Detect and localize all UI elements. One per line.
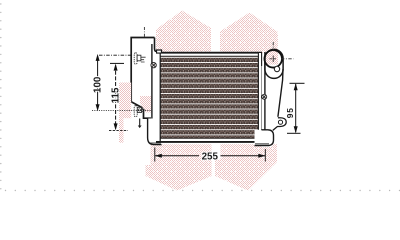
watermark peek B (left sliver below) bbox=[119, 118, 124, 143]
watermark tile H1 (top-left house) bbox=[156, 11, 211, 54]
dim 255 bbox=[155, 148, 265, 162]
end plate left line bbox=[151, 44, 153, 122]
core fins bbox=[160, 57, 259, 139]
end plate strip left (white) bbox=[152, 52, 160, 143]
tank right edge taper bbox=[278, 69, 283, 117]
port center cross bbox=[270, 42, 294, 62]
watermark peek C (notch right of bracket diagonal) bbox=[140, 96, 152, 113]
watermark tile P3 (bottom-left, apex down) bbox=[146, 144, 212, 190]
port big circle bbox=[264, 50, 282, 68]
bracket right edge top with step bbox=[155, 38, 159, 53]
core right end plate bbox=[258, 53, 265, 142]
right tank lower body (white fill) bbox=[262, 66, 287, 147]
dotted page border bottom row bbox=[5, 190, 400, 191]
svg-text:100: 100 bbox=[93, 76, 104, 93]
svg-text:255: 255 bbox=[202, 152, 219, 163]
dim 95 bbox=[287, 83, 305, 133]
screw top-left bbox=[151, 62, 156, 67]
left bracket outline bbox=[131, 38, 154, 119]
svg-text:95: 95 bbox=[285, 107, 295, 118]
core left boundary bbox=[159, 53, 161, 142]
left foot bbox=[148, 119, 162, 145]
core top-left bump bbox=[157, 50, 162, 53]
watermark tiles (pink halftone) bbox=[146, 11, 279, 191]
core bottom gap bbox=[160, 138, 259, 142]
screw bottom-left bbox=[152, 125, 157, 130]
clip symbol lower bbox=[134, 106, 144, 117]
dim 115 bbox=[109, 63, 128, 130]
watermark tile H2 (top-right house) bbox=[220, 13, 278, 54]
svg-text:115: 115 bbox=[111, 87, 122, 103]
centerline stub above bracket bbox=[143, 27, 145, 37]
watermark peek A (left of bracket) bbox=[119, 83, 131, 119]
core bottom plate bbox=[160, 137, 259, 139]
ear hole bbox=[278, 120, 282, 124]
watermark tile P4 (bottom-right, apex down) bbox=[215, 144, 277, 190]
right foot bbox=[255, 130, 274, 146]
dotted page border left column bbox=[0, 3, 1, 189]
clip symbol upper bbox=[134, 53, 145, 64]
bleed stub below bracket bbox=[138, 119, 142, 129]
tank screw bbox=[262, 94, 267, 99]
core top plate bbox=[156, 52, 262, 54]
tank left edge bbox=[264, 52, 266, 131]
dim 100 bbox=[92, 55, 152, 110]
left bracket body (white fill) bbox=[131, 38, 160, 119]
mounting ear bbox=[273, 118, 286, 131]
port small circle bbox=[274, 66, 279, 71]
